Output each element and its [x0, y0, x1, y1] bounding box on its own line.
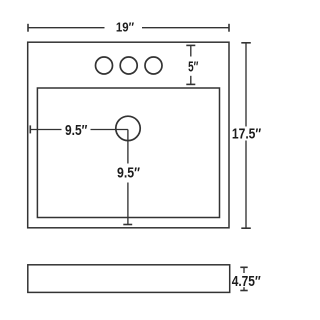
dimension 17.5in: bottom bar	[241, 227, 251, 229]
sink side view outline	[28, 265, 230, 293]
dimension 5in: lower segment	[190, 76, 192, 85]
dimension 9.5in horizontal: tick	[29, 125, 31, 133]
svg-text:17.5″: 17.5″	[232, 126, 261, 142]
dimension 9.5in horizontal: right segment	[91, 129, 128, 131]
sink basin inner rect	[37, 88, 219, 218]
dimension 4.75in: lower segment	[243, 287, 245, 290]
dimension 19in: left tick	[27, 24, 29, 32]
svg-text:9.5″: 9.5″	[65, 123, 87, 139]
svg-text:4.75″: 4.75″	[232, 274, 261, 290]
dimension 19in: right tick	[228, 24, 230, 32]
dimension 9.5in vertical: bottom bar	[123, 224, 132, 226]
dimension 4.75in: upper segment	[243, 267, 245, 273]
dimension 17.5in: upper segment	[245, 43, 247, 127]
dimension 5in: top bar	[186, 44, 195, 46]
dimension 5in: upper segment	[190, 45, 192, 56]
dimension 9.5in vertical: lower segment	[127, 183, 129, 226]
dimension 9.5in vertical: upper segment	[127, 130, 129, 164]
svg-text:9.5″: 9.5″	[117, 165, 140, 181]
dimension 4.75in: top bar	[240, 266, 247, 268]
dimension 5in: bottom bar	[186, 83, 195, 85]
svg-text:5″: 5″	[188, 59, 198, 75]
faucet hole right	[145, 57, 162, 74]
dimension 4.75in: bottom bar	[240, 290, 247, 292]
svg-text:19″: 19″	[116, 20, 134, 34]
faucet hole left	[96, 57, 113, 74]
dimension 17.5in: top bar	[241, 42, 251, 44]
faucet hole center	[120, 57, 137, 74]
sink outer rim (top view)	[28, 42, 229, 228]
dimension 19in: line right segment	[142, 27, 229, 29]
dimension 9.5in horizontal: left segment	[30, 129, 61, 131]
dimension 17.5in: lower segment	[245, 141, 247, 229]
drain hole	[116, 116, 140, 140]
dimension 19in: line left segment	[28, 27, 105, 29]
